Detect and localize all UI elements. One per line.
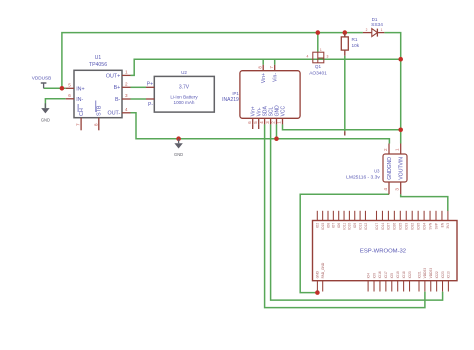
svg-text:IO12: IO12 [364,223,368,230]
wire SDA to ESP32 IO21 [265,124,425,307]
svg-text:6: 6 [247,121,252,124]
svg-text:VDD33: VDD33 [423,268,427,279]
svg-text:7: 7 [76,123,81,126]
svg-text:B-: B- [115,97,121,103]
svg-text:IO16: IO16 [378,271,382,278]
svg-text:10k: 10k [352,43,360,48]
svg-text:IO8: IO8 [326,223,330,228]
battery U2 Li-Ion 3.7V 1000mAh [146,70,214,112]
svg-text:CH: CH [79,108,85,116]
junction ESP32 GND pin [315,290,320,295]
svg-text:IO35: IO35 [416,223,420,230]
svg-text:D1: D1 [372,17,378,22]
svg-text:IO23: IO23 [408,271,412,278]
diode D1 SS34 schottky [363,17,384,37]
wire INA219 VCC to VIN riser [283,124,401,129]
svg-text:R1: R1 [352,37,358,42]
svg-text:3V3: 3V3 [446,223,450,229]
junction Q1 drain on VIN riser [398,57,403,62]
svg-text:IO13: IO13 [447,271,451,278]
module ESP-WROOM-32 [313,211,458,292]
wire VDDUSB to IN+ [44,87,66,89]
svg-text:GND: GND [41,118,50,123]
svg-text:IO14: IO14 [381,223,385,230]
svg-text:VCC: VCC [280,105,286,116]
svg-text:1: 1 [381,28,383,32]
svg-text:6: 6 [68,93,71,98]
svg-text:INA219: INA219 [222,97,239,103]
svg-text:IP1: IP1 [232,91,239,96]
svg-text:IO27: IO27 [387,223,391,230]
wire INA219 GND pin to GND bus [276,124,278,138]
svg-text:ESP-WROOM-32: ESP-WROOM-32 [360,248,406,254]
svg-text:3: 3 [265,121,270,124]
power port VDDUSB [32,75,52,88]
svg-text:IO19: IO19 [396,271,400,278]
wire B+ to P+ [131,86,147,88]
svg-text:2: 2 [366,28,368,32]
svg-text:IN+: IN+ [76,86,84,92]
svg-text:OUT+: OUT+ [106,73,120,79]
wire IN- to ground [45,99,65,108]
svg-text:1000 mAh: 1000 mAh [174,100,195,105]
svg-text:SVN: SVN [428,222,432,229]
svg-text:AO3401: AO3401 [309,71,327,77]
wire B- to P- [131,98,147,100]
svg-text:Q1: Q1 [315,64,322,69]
svg-text:Li-Ion Battery: Li-Ion Battery [170,94,198,99]
svg-text:SS34: SS34 [371,22,383,28]
regulator module U3 LM25116 - 3.3v [346,144,407,195]
svg-text:IO17: IO17 [375,223,379,230]
svg-text:4: 4 [307,54,309,58]
wire diode cathode to LM2596 VIN riser [384,33,400,144]
svg-text:4: 4 [125,107,128,112]
svg-text:8: 8 [93,123,98,126]
svg-text:3: 3 [327,54,329,58]
svg-text:GND: GND [174,152,183,157]
svg-text:IO17: IO17 [384,271,388,278]
svg-text:1: 1 [277,121,282,124]
svg-text:P+: P+ [147,82,153,88]
svg-text:IO5: IO5 [390,273,394,278]
wire R1 top to VBUS [344,33,346,37]
wire VBUS top bus from IN+ node to diode anode [62,33,363,89]
svg-text:VDD33: VDD33 [429,268,433,279]
svg-text:3: 3 [125,93,128,98]
svg-text:VIN: VIN [399,157,405,166]
svg-text:VDDUSB: VDDUSB [32,75,52,80]
wire SCL to ESP32 IO22 [271,124,443,300]
svg-text:GND: GND [387,168,393,180]
wire OUT+ along top of INA219 through Q1 row [131,59,314,75]
junction R1 on VBUS [343,30,348,35]
svg-text:3.7V: 3.7V [179,85,190,91]
svg-text:5: 5 [253,121,258,124]
wire R1 bottom hanging [344,56,346,136]
ground GND (left, at IN-) [41,103,50,122]
svg-text:IO25: IO25 [399,223,403,230]
svg-text:SVP: SVP [434,222,438,229]
svg-text:IO4: IO4 [366,273,370,278]
wire Q1 gate riser to VBUS [317,33,319,52]
svg-text:B+: B+ [114,85,121,91]
svg-text:3: 3 [395,188,400,191]
svg-text:7: 7 [269,66,274,69]
svg-text:IO10: IO10 [348,223,352,230]
wire LM2596 GND (pin 4) to ESP32 GND [300,194,389,292]
svg-text:U1: U1 [95,55,102,61]
svg-text:IO21: IO21 [417,271,421,278]
svg-text:IN-: IN- [76,97,83,103]
svg-text:IO7: IO7 [332,223,336,228]
junction VDDUSB/IN+ [60,86,65,91]
resistor R1 10k [341,33,359,56]
svg-text:IO23: IO23 [441,271,445,278]
svg-text:4: 4 [259,121,264,124]
svg-text:IO11: IO11 [342,223,346,230]
svg-text:5: 5 [68,82,71,87]
junction INA219 GND on GND bus [274,136,279,141]
svg-text:2: 2 [271,121,276,124]
svg-text:IO2: IO2 [316,223,320,228]
svg-text:TP4056: TP4056 [89,62,107,68]
svg-text:LM25116 - 3.3v: LM25116 - 3.3v [346,175,380,181]
svg-text:IO26: IO26 [393,223,397,230]
svg-text:Vin+: Vin+ [261,73,267,83]
svg-text:1: 1 [395,148,400,151]
svg-text:2: 2 [125,81,128,86]
svg-text:IO34: IO34 [422,223,426,230]
svg-text:U3: U3 [374,169,380,174]
IC IP1 INA219 current sensor [222,65,300,129]
svg-text:IO15: IO15 [321,223,325,230]
svg-text:IO13: IO13 [358,223,362,230]
svg-text:GND: GND [387,157,393,169]
svg-text:1: 1 [125,70,128,75]
svg-text:IO9: IO9 [353,223,357,228]
svg-text:U2: U2 [181,70,187,75]
svg-text:IO0: IO0 [372,273,376,278]
wire LM2596 VOUT (pin 3) to ESP32 3V3 [401,194,448,211]
svg-text:4: 4 [383,188,388,191]
svg-text:IO18: IO18 [402,271,406,278]
svg-text:GND: GND [316,270,320,278]
svg-text:STB: STB [97,105,103,116]
transistor Q1 AO3401 PMOS [307,48,329,77]
wire drop to INA219 Vin- (pin 7) [274,59,276,65]
svg-text:OUT-: OUT- [108,111,121,117]
wire drop to INA219 Vin+ (pin 8) [262,59,264,65]
IC U1 TP4056 charger module [66,55,131,131]
svg-text:IO6: IO6 [337,223,341,228]
svg-text:PAD_GND: PAD_GND [321,262,325,278]
junction GND bus at ground symbol [176,136,181,141]
svg-text:EN: EN [440,222,444,227]
svg-text:IO32: IO32 [411,223,415,230]
svg-text:8: 8 [257,66,262,69]
svg-text:Vin-: Vin- [273,73,279,82]
svg-text:2: 2 [383,148,388,151]
ground GND (on GND bus) [174,139,183,157]
svg-text:1: 1 [320,48,322,52]
svg-text:IO22: IO22 [435,271,439,278]
svg-text:VOUT: VOUT [399,165,405,180]
svg-text:P-: P- [148,102,153,108]
svg-text:IO33: IO33 [405,223,409,230]
junction VCC line on VIN riser [398,128,403,133]
wire Q1 drain to VIN riser [313,58,401,60]
wire OUT- to GND bus to LM2596 GND (pin 2) [131,113,390,144]
junction Q1 gate on VBUS [316,30,321,35]
